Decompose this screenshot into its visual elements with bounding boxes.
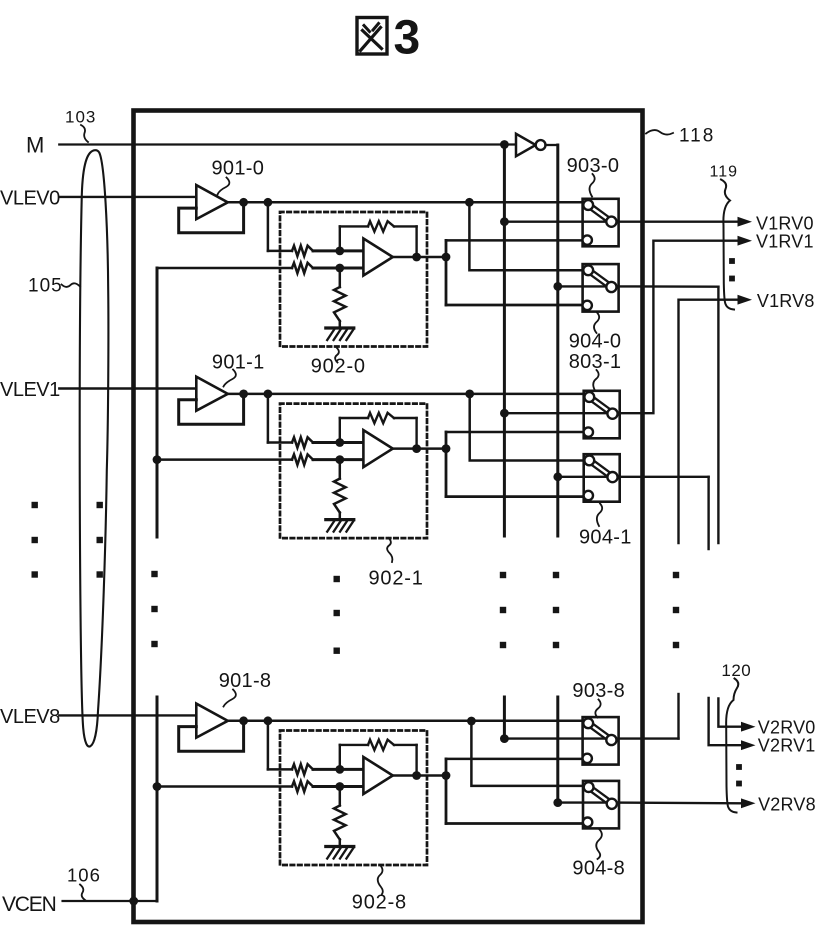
svg-text:3: 3 bbox=[394, 12, 421, 65]
node inverted-M bus tap 904-0 bbox=[553, 282, 562, 291]
wire Rg to ground bbox=[339, 513, 342, 520]
ellipsis dots V1RV8 riser bbox=[673, 572, 679, 578]
svg-text:V1RV1: V1RV1 bbox=[756, 232, 814, 252]
svg-text:902-0: 902-0 bbox=[311, 356, 366, 378]
node VCEN tap row 1 bbox=[153, 455, 162, 464]
leader squiggle 902-8 bbox=[378, 865, 383, 894]
svg-text:904-1: 904-1 bbox=[579, 527, 632, 549]
leader squiggle 103 bbox=[81, 125, 88, 142]
title figure label 図3 drawn kanji box bbox=[357, 18, 387, 55]
wire feedback top left bbox=[340, 225, 368, 227]
svg-text:118: 118 bbox=[679, 126, 715, 147]
bracket arc 119 with leader bbox=[721, 180, 734, 310]
wire switch 903-8 output to V1RV8 riser bbox=[612, 737, 679, 739]
ground symbol 902-0 bbox=[326, 328, 354, 340]
wire bracket to switch 903-0 lower input bbox=[446, 239, 588, 242]
resistor 902-1 Rg to ground bbox=[334, 479, 346, 513]
leader squiggle 901-1 bbox=[224, 370, 236, 387]
wire feedback top right bbox=[394, 417, 417, 419]
leader squiggle 903-0 bbox=[590, 174, 595, 197]
node M junction at x=504 bbox=[500, 140, 509, 149]
svg-text:VLEV0: VLEV0 bbox=[0, 187, 60, 209]
wire to resistor R1 of 902-0 bbox=[268, 250, 292, 253]
wire M vertical bus upper segment bbox=[503, 145, 506, 537]
resistor 902-8 Rf feedback bbox=[368, 740, 394, 750]
switch 903-8 bbox=[583, 717, 619, 765]
wire VCEN to resistor R2 of 902-8 bbox=[157, 785, 292, 788]
ellipsis dots V2 outputs bbox=[736, 764, 742, 770]
wire R1 to op-amp inverting input bbox=[313, 768, 363, 771]
wire feedback top right bbox=[394, 744, 417, 746]
node M bus tap 903-0 bbox=[500, 217, 509, 226]
leader squiggle 105 bbox=[62, 283, 81, 287]
svg-text:105: 105 bbox=[28, 276, 63, 297]
op-amp 902-0 triangle bbox=[363, 239, 392, 276]
svg-text:V2RV8: V2RV8 bbox=[758, 795, 815, 815]
node M bus tap 903-1 bbox=[500, 409, 509, 418]
wire bracket to switch 903-8 lower input bbox=[446, 758, 588, 761]
wire R2 to op-amp non-inverting input bbox=[313, 458, 363, 461]
svg-text:M: M bbox=[26, 133, 44, 158]
inverter U1 bubble bbox=[536, 140, 546, 150]
wire Rg to ground bbox=[339, 321, 342, 328]
wire M vertical bus lower segment bbox=[503, 697, 506, 739]
wire feedback top left bbox=[340, 417, 368, 419]
wire VCEN to resistor R2 of 902-1 bbox=[157, 458, 292, 461]
wire switch 904-1 output to V2 riser bbox=[611, 476, 708, 478]
wire bracket to switch 903-1 lower input bbox=[446, 431, 588, 434]
wire output bracket vertical bbox=[445, 432, 448, 497]
wire V2RV0 riser lower segment bbox=[718, 699, 741, 727]
wire switch 904-0 output to V2 riser bbox=[611, 285, 718, 288]
svg-text:VLEV1: VLEV1 bbox=[0, 379, 60, 401]
ellipsis dots V1 outputs bbox=[729, 258, 735, 264]
svg-text:V1RV0: V1RV0 bbox=[756, 214, 814, 234]
wire buffer 901-0 feedback loop bbox=[179, 202, 244, 232]
block 118 outer box bbox=[134, 111, 643, 923]
node inverted-M bus tap 904-1 bbox=[553, 472, 562, 481]
svg-text:901-1: 901-1 bbox=[212, 351, 265, 373]
svg-text:904-8: 904-8 bbox=[572, 858, 625, 880]
wire feedback down to output bbox=[415, 418, 417, 449]
wire buffer 901-8 output to switch 903-8 bbox=[228, 720, 590, 723]
resistor 902-8 R1 bbox=[292, 764, 313, 774]
wire R2 to op-amp non-inverting input bbox=[313, 785, 363, 788]
node buffer 901-0 output b bbox=[264, 198, 273, 207]
wire op-amp output bbox=[393, 774, 446, 777]
node 902-8 non-inverting input bbox=[335, 782, 344, 791]
wire inverted-M vertical bus upper segment bbox=[556, 145, 559, 536]
switch 903-1 bbox=[584, 391, 620, 439]
ellipsis dots divider column bbox=[334, 576, 340, 582]
leader squiggle 902-0 bbox=[335, 348, 339, 363]
node buffer 901-8 output a bbox=[239, 716, 248, 725]
divider block 902-0 dashed box bbox=[280, 212, 427, 347]
wire non-inverting node down bbox=[339, 460, 342, 479]
node inverted-M bus end 904-8 bbox=[553, 798, 562, 807]
wire inverted-M vertical bus lower segment bbox=[556, 697, 559, 803]
wire M bus to switch 903-1 common bbox=[504, 412, 607, 414]
switch 903-0 bbox=[583, 199, 619, 247]
op-amp buffer 901-0 triangle bbox=[196, 185, 228, 219]
wire to resistor R1 of 902-1 bbox=[268, 441, 292, 444]
arrow V1RV8 bbox=[738, 295, 753, 305]
wire VLEV0 input bbox=[59, 196, 196, 198]
arrow V1RV1 bbox=[738, 236, 753, 246]
svg-text:V1RV8: V1RV8 bbox=[757, 291, 815, 311]
cable oval 105 bbox=[80, 150, 109, 746]
leader squiggle 901-8 bbox=[224, 690, 236, 707]
wire R1 to op-amp inverting input bbox=[313, 249, 363, 252]
svg-text:901-8: 901-8 bbox=[219, 670, 272, 692]
divider block 902-1 dashed box bbox=[280, 404, 427, 538]
wire buffer 901-0 output to switch 903-0 bbox=[228, 201, 590, 204]
wire op-amp output bbox=[393, 447, 446, 450]
wire VCEN input horizontal bbox=[63, 900, 157, 902]
node buffer 901-0 output a bbox=[239, 198, 248, 207]
wire V2RV1 riser lower segment bbox=[709, 698, 741, 745]
wire VLEV8 input bbox=[59, 714, 196, 716]
op-amp 902-1 triangle bbox=[363, 430, 392, 467]
wire buffer drop to 904-8 upper input bbox=[471, 721, 589, 786]
wire buffer 901-1 feedback loop bbox=[179, 394, 244, 424]
op-amp buffer 901-8 triangle bbox=[196, 704, 228, 738]
wire buffer drop to 904-1 upper input bbox=[470, 394, 588, 461]
svg-text:902-1: 902-1 bbox=[369, 568, 424, 590]
resistor 902-0 R2 bbox=[292, 263, 313, 273]
node drop tap on output 8 bbox=[467, 717, 476, 726]
wire drop to divider input bbox=[267, 721, 270, 770]
wire V1RV8 riser lower segment bbox=[677, 694, 679, 739]
inverter U1 triangle bbox=[516, 134, 536, 156]
wire feedback down to output bbox=[415, 745, 417, 776]
wire feedback top left bbox=[340, 744, 368, 746]
leader squiggle 904-8 bbox=[596, 830, 602, 860]
ellipsis dots VCEN vertical bbox=[151, 571, 157, 577]
node buffer 901-8 output b bbox=[264, 716, 273, 725]
ellipsis dots VLEV inputs column a bbox=[32, 502, 38, 508]
node VCEN at box edge bbox=[129, 897, 138, 906]
node op-amp output outer bbox=[442, 253, 451, 262]
node op-amp output outer bbox=[442, 444, 451, 453]
svg-text:106: 106 bbox=[67, 865, 101, 886]
svg-text:103: 103 bbox=[65, 108, 96, 127]
wire output bracket vertical bbox=[445, 240, 448, 305]
wire VCEN vertical upper segment bbox=[156, 697, 159, 901]
wire switch 903-0 output V1RV0 bbox=[611, 220, 737, 222]
wire M bus to switch 903-8 common bbox=[504, 737, 607, 739]
divider block 902-8 dashed box bbox=[280, 731, 427, 866]
resistor 902-1 R1 bbox=[292, 437, 313, 447]
node VCEN tap row 8 bbox=[153, 782, 162, 791]
svg-text:901-0: 901-0 bbox=[212, 158, 265, 180]
node 902-1 inverting input bbox=[335, 438, 344, 447]
wire bracket to switch 904-0 lower input bbox=[446, 304, 588, 307]
wire feedback up from inverting node bbox=[339, 418, 341, 443]
wire V1RV8 riser upper segment bbox=[679, 300, 738, 543]
wire VCEN to resistor R2 of 902-0 bbox=[157, 267, 292, 270]
wire to resistor R1 of 902-8 bbox=[268, 768, 292, 771]
wire R2 to op-amp non-inverting input bbox=[313, 267, 363, 270]
resistor 902-0 Rg to ground bbox=[334, 287, 346, 321]
ellipsis dots M bus bbox=[500, 572, 506, 578]
node op-amp output inner bbox=[412, 253, 421, 262]
switch 904-0 bbox=[583, 264, 619, 312]
op-amp buffer 901-1 triangle bbox=[196, 377, 228, 411]
svg-text:803-1: 803-1 bbox=[569, 351, 622, 373]
node buffer 901-1 output b bbox=[264, 390, 273, 399]
resistor 902-1 Rf feedback bbox=[368, 413, 394, 423]
wire V2RV1 riser upper segment bbox=[707, 477, 709, 549]
svg-text:VCEN: VCEN bbox=[2, 893, 56, 916]
svg-text:119: 119 bbox=[710, 164, 739, 181]
ellipsis dots inverted-M bus bbox=[553, 572, 559, 578]
arrow V1RV0 bbox=[738, 217, 753, 227]
resistor 902-8 Rg to ground bbox=[334, 806, 346, 840]
switch 904-8 bbox=[583, 781, 619, 829]
wire drop to divider input bbox=[267, 202, 270, 251]
svg-text:120: 120 bbox=[721, 661, 751, 680]
wire M input horizontal bbox=[59, 143, 516, 145]
node 902-0 non-inverting input bbox=[335, 264, 344, 273]
node 902-0 inverting input bbox=[335, 247, 344, 256]
ground symbol 902-1 bbox=[326, 520, 354, 532]
leader squiggle 118 bbox=[646, 130, 673, 134]
svg-text:V2RV1: V2RV1 bbox=[758, 736, 815, 756]
wire non-inverting node down bbox=[339, 268, 342, 287]
wire V2RV0 riser upper segment bbox=[717, 287, 719, 543]
leader squiggle 904-0 bbox=[594, 313, 599, 334]
node op-amp output outer bbox=[442, 771, 451, 780]
wire buffer 901-8 feedback loop bbox=[179, 721, 244, 751]
wire VLEV1 input bbox=[59, 387, 196, 389]
svg-text:904-0: 904-0 bbox=[569, 331, 622, 353]
svg-text:VLEV8: VLEV8 bbox=[0, 706, 60, 728]
wire feedback top right bbox=[394, 225, 417, 227]
ground symbol 902-8 bbox=[326, 847, 354, 859]
node op-amp output inner bbox=[412, 444, 421, 453]
wire feedback down to output bbox=[415, 226, 417, 257]
node 902-1 non-inverting input bbox=[335, 455, 344, 464]
op-amp 902-8 triangle bbox=[363, 757, 392, 794]
wire inverted-M bus to switch 904-1 common bbox=[558, 476, 607, 478]
ellipsis dots VLEV inputs column b bbox=[97, 502, 103, 508]
svg-text:902-8: 902-8 bbox=[352, 892, 407, 914]
wire inverted-M bus to switch 904-8 common bbox=[558, 801, 607, 803]
wire feedback up from inverting node bbox=[339, 745, 341, 770]
wire buffer 901-1 output to switch 903-1 bbox=[228, 393, 590, 396]
wire non-inverting node down bbox=[339, 787, 342, 806]
node 902-8 inverting input bbox=[335, 765, 344, 774]
arrow V2RV8 bbox=[741, 798, 756, 808]
leader squiggle 903-1 bbox=[593, 370, 598, 391]
leader squiggle 901-0 bbox=[218, 178, 230, 195]
leader squiggle 903-8 bbox=[595, 700, 600, 718]
node drop tap on output 0 bbox=[465, 198, 474, 207]
wire R1 to op-amp inverting input bbox=[313, 441, 363, 444]
wire inverter output to vertical bbox=[546, 144, 558, 146]
node buffer 901-1 output a bbox=[239, 390, 248, 399]
arrow V2RV1 bbox=[741, 740, 756, 750]
node op-amp output inner bbox=[412, 771, 421, 780]
wire VCEN vertical lower segment bbox=[156, 268, 159, 537]
resistor 902-0 R1 bbox=[292, 246, 313, 256]
bracket arc 120 with leader bbox=[726, 679, 738, 813]
resistor 902-8 R2 bbox=[292, 781, 313, 791]
leader squiggle 904-1 bbox=[597, 504, 602, 527]
node M bus end 903-8 bbox=[500, 734, 509, 743]
wire feedback up from inverting node bbox=[339, 226, 341, 251]
leader squiggle 106 bbox=[80, 885, 85, 901]
resistor 902-0 Rf feedback bbox=[368, 221, 394, 231]
node drop tap on output 1 bbox=[465, 390, 474, 399]
arrow V2RV0 bbox=[741, 722, 756, 732]
switch 904-1 bbox=[584, 454, 620, 502]
wire bracket to switch 904-8 lower input bbox=[446, 822, 588, 825]
resistor 902-1 R2 bbox=[292, 454, 313, 464]
wire output bracket vertical bbox=[445, 759, 448, 824]
wire bracket to switch 904-1 lower input bbox=[446, 495, 588, 498]
wire Rg to ground bbox=[339, 840, 342, 847]
wire switch 904-8 output V2RV8 bbox=[611, 801, 741, 804]
wire op-amp output bbox=[393, 256, 446, 259]
leader squiggle 902-1 bbox=[387, 538, 392, 562]
wire drop to divider input bbox=[267, 394, 270, 443]
wire M bus to switch 903-0 common bbox=[504, 220, 606, 222]
wire switch 903-1 output riser V1RV1 bbox=[611, 241, 737, 414]
wire buffer drop to 904-0 upper input bbox=[469, 202, 588, 270]
wire inverted-M bus to switch 904-0 common bbox=[558, 285, 607, 287]
